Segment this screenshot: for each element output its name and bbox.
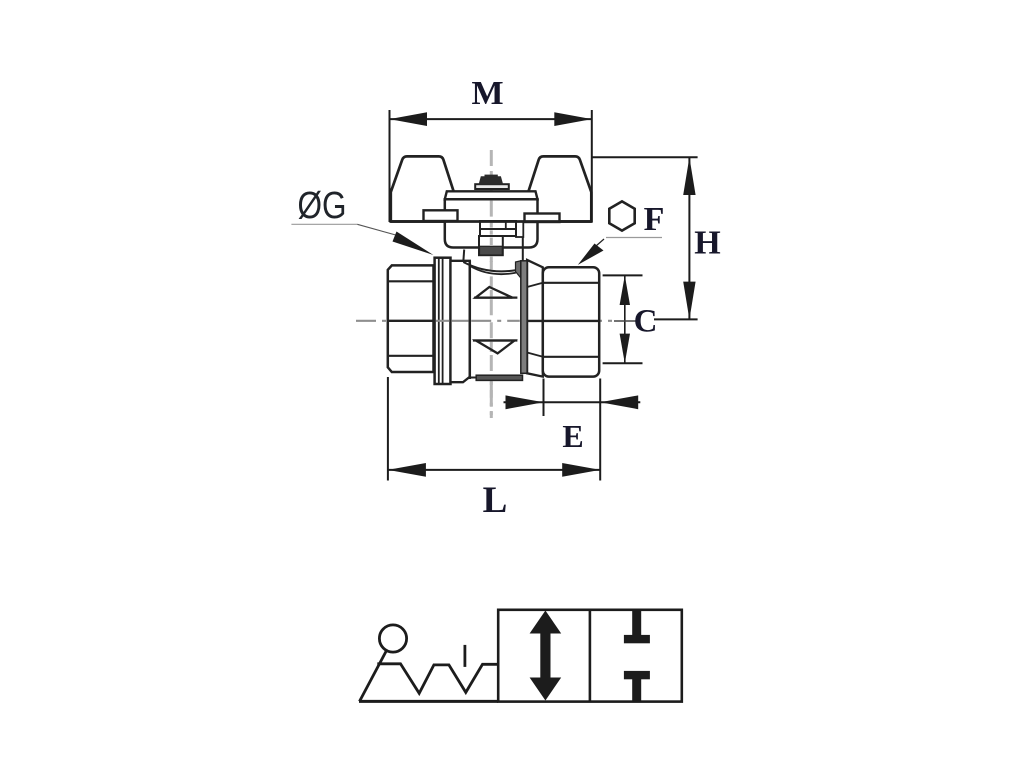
handle hub body: [445, 199, 538, 247]
L dimension line: [388, 469, 600, 471]
svg-text:H: H: [694, 225, 720, 262]
schematic knob circle: [379, 625, 406, 652]
OG underline: [291, 223, 357, 225]
svg-text:L: L: [483, 480, 508, 521]
centerline vertical axis (over segments): [490, 201, 493, 418]
union ring: [435, 258, 451, 384]
C extension lines: [603, 274, 643, 276]
tab right: [525, 214, 560, 223]
handle hub top band: [445, 191, 538, 199]
schematic detent tick: [463, 645, 466, 667]
stem nut dark: [479, 177, 502, 184]
stem packing rects: [479, 221, 523, 255]
dimension M arrows: [390, 112, 428, 126]
L extension line left: [387, 377, 389, 481]
H dimension line: [688, 157, 690, 319]
svg-text:C: C: [634, 304, 658, 340]
C dimension line: [624, 275, 626, 363]
dark side strip: [521, 261, 527, 374]
wing left: [391, 156, 454, 221]
flow arrow down: [473, 339, 518, 341]
tab left: [424, 210, 458, 221]
F leader: [606, 237, 662, 239]
shoulder between band and nut: [527, 260, 543, 377]
schematic valve boxes: [498, 610, 682, 702]
schematic blocked port bottom T: [624, 671, 650, 679]
E extension lines: [543, 379, 545, 417]
centerline horizontal pipe axis (under layer): [356, 320, 612, 322]
dark corner piece: [516, 261, 521, 278]
schematic flow arrow: [540, 629, 550, 682]
svg-text:ØG: ØG: [298, 185, 347, 227]
body strip right of ring: [451, 261, 470, 382]
dimension M extension lines: [390, 110, 592, 222]
schematic baseline: [359, 700, 498, 703]
left end cap hex: [388, 265, 434, 372]
svg-text:F: F: [644, 201, 665, 238]
wing bottom bar: [391, 220, 592, 223]
centerline vertical axis (under layer): [490, 150, 493, 418]
H top line: [592, 156, 698, 158]
right nut: [543, 267, 599, 376]
flow arrow up: [474, 296, 517, 298]
stem nut plate: [475, 184, 509, 189]
E dimension line: [504, 401, 641, 403]
centerline horizontal pipe axis (over segments): [436, 320, 520, 322]
schematic detent zigzag: [377, 664, 498, 694]
neck arcs: [463, 262, 515, 271]
wing right: [529, 156, 592, 221]
stem dark block: [480, 246, 503, 255]
central band ball housing front: [470, 262, 521, 378]
dark bottom strip: [476, 375, 522, 380]
black hex centerlines: [388, 320, 434, 322]
schematic blocked port top T: [632, 611, 641, 636]
svg-text:M: M: [471, 75, 503, 112]
H bottom line: [654, 318, 698, 320]
OG leader: [357, 224, 403, 237]
hexagon F: [609, 201, 634, 230]
svg-text:E: E: [562, 418, 583, 454]
schematic lever shaft: [360, 651, 387, 702]
